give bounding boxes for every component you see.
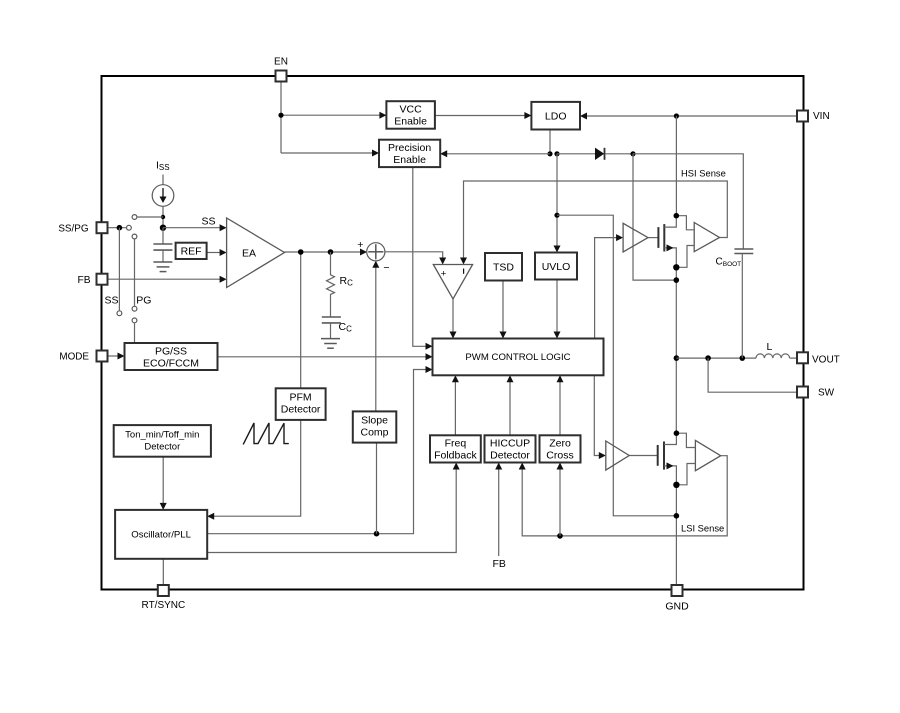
wire TSD to PWM	[502, 281, 504, 333]
wire LSI sense feedback	[522, 456, 727, 536]
block Slope Comp	[353, 411, 397, 442]
wire SS cap to ground	[162, 250, 164, 262]
wire VCC rail down	[556, 154, 558, 248]
arrow SS into EA	[220, 224, 227, 231]
svg-text:FB: FB	[77, 275, 90, 286]
svg-text:Detector: Detector	[281, 403, 321, 415]
switch contact c lower	[132, 234, 137, 239]
wire HS gate	[648, 237, 658, 239]
arrow ZC to PWM	[557, 375, 564, 382]
wire LDO bottom	[549, 130, 551, 154]
block HICCUP Detector	[485, 435, 536, 462]
arrow into Zero Cross	[557, 463, 564, 470]
svg-text:Detector: Detector	[490, 449, 530, 461]
svg-text:PFM: PFM	[290, 391, 312, 403]
svg-text:Ton_min/Toff_min: Ton_min/Toff_min	[125, 429, 199, 440]
wire diode cathode to boot node	[605, 153, 633, 155]
block Zero Cross	[540, 435, 581, 462]
op-amp EA error amplifier	[227, 218, 285, 288]
arrow REF into EA	[220, 249, 227, 256]
svg-text:Enable: Enable	[393, 154, 426, 166]
wire FB pin to EA	[109, 278, 221, 280]
ground under Cc	[321, 339, 340, 349]
wire Ton_min to Oscillator	[162, 457, 164, 504]
arrow Osc to PWM	[426, 366, 433, 373]
node VIN rail tap	[674, 113, 679, 118]
wire PGSS to PWM	[218, 356, 427, 358]
block Precision Enable	[379, 140, 440, 167]
arrow HICCUP to PWM	[507, 375, 514, 382]
resistor Rc	[327, 252, 335, 317]
diode D1 bootstrap	[595, 148, 605, 160]
node SSPG	[117, 225, 123, 231]
pin VIN	[797, 111, 830, 123]
arrow FB into EA	[220, 276, 227, 283]
arrow into UVLO	[554, 246, 561, 253]
block REF	[176, 243, 207, 259]
wire LS source down to GND	[675, 485, 677, 585]
svg-text:LSI Sense: LSI Sense	[681, 523, 724, 534]
node VCC rail top	[554, 151, 559, 156]
svg-text:SS/PG: SS/PG	[58, 223, 88, 234]
wire boot to Cboot	[633, 154, 743, 249]
wire Zero Cross to PWM	[559, 381, 561, 435]
node SS	[160, 225, 166, 231]
pin GND	[665, 585, 689, 613]
pin SW	[797, 387, 835, 399]
wire VCC to LS driver supply	[557, 215, 676, 516]
arrow summing into comparator	[439, 258, 446, 265]
comparator PWM	[433, 265, 472, 299]
svg-text:VOUT: VOUT	[812, 354, 840, 365]
wire UVLO to PWM	[556, 280, 558, 333]
wire PG sense down	[134, 239, 136, 306]
wire PFM to Oscillator	[214, 420, 301, 516]
node inductor tap	[705, 355, 711, 361]
wire FB to HICCUP	[498, 469, 500, 557]
wire L to VOUT	[790, 357, 798, 359]
switch contact PG lower2	[132, 318, 137, 323]
arrow into LS driver	[599, 452, 606, 459]
svg-text:Cross: Cross	[546, 449, 573, 461]
block Ton_min/Toff_min Detector	[114, 425, 211, 457]
wire Iss to SS node	[162, 206, 164, 227]
node boot	[630, 151, 635, 156]
wire summing to comparator	[385, 252, 443, 259]
svg-text:RT/SYNC: RT/SYNC	[142, 600, 186, 611]
switch contact a	[126, 225, 131, 230]
wire EN to Precision Enable	[281, 152, 374, 154]
wire Cboot to SW	[741, 254, 743, 359]
svg-text:−: −	[383, 262, 389, 274]
wire Precision Enable to PWM	[413, 167, 427, 346]
block Freq Foldback	[430, 435, 481, 462]
arrow comp into PWM	[450, 332, 457, 339]
arrow PGSS to PWM	[426, 353, 433, 360]
transistor HS FET	[658, 213, 694, 271]
svg-text:UVLO: UVLO	[542, 261, 571, 273]
svg-text:Detector: Detector	[144, 441, 180, 452]
arrow FF to PWM	[452, 375, 459, 382]
arrow FB into HICCUP	[495, 463, 502, 470]
block PWM CONTROL LOGIC	[433, 339, 604, 376]
svg-text:+: +	[357, 239, 363, 251]
wire SS to EA	[163, 227, 220, 229]
node Iss switch tap	[161, 215, 165, 219]
wire EN to VCC Enable	[281, 114, 381, 116]
svg-text:REF: REF	[181, 246, 202, 258]
wire SS sense down	[118, 228, 120, 311]
svg-text:FB: FB	[493, 558, 506, 570]
node zero cross tap	[557, 533, 563, 539]
wire REF to EA	[207, 252, 220, 254]
wire PWM to HS driver	[595, 238, 617, 339]
wire VIN rail down to HS drain	[675, 116, 677, 216]
wire Oscillator to PWM	[207, 370, 426, 534]
current source Iss	[152, 185, 174, 207]
capacitor Cboot	[734, 249, 753, 254]
wire osc to slope comp	[376, 443, 378, 534]
arrow Tonmin into osc	[160, 503, 167, 510]
pin EN	[274, 57, 288, 82]
node COMP	[298, 249, 304, 255]
wire HSI sense feedback	[464, 181, 728, 259]
svg-text:PG/SS: PG/SS	[155, 345, 187, 357]
wire contact b to Iss node	[137, 216, 163, 218]
svg-text:ECO/FCCM: ECO/FCCM	[143, 357, 199, 369]
svg-text:Foldback: Foldback	[434, 449, 477, 461]
block Oscillator/PLL	[115, 510, 207, 559]
svg-text:LDO: LDO	[545, 111, 567, 123]
svg-text:HICCUP: HICCUP	[490, 437, 530, 449]
node slope comp tap	[374, 531, 380, 537]
wire LS gate	[629, 455, 658, 457]
block UVLO	[535, 253, 577, 280]
svg-text:Precision: Precision	[388, 142, 431, 154]
LS gate driver	[606, 441, 629, 470]
arrow UVLO to PWM	[554, 332, 561, 339]
capacitor Cc	[322, 317, 341, 323]
wire EN vertical from pin	[280, 82, 282, 153]
arrow MODE into PGSS	[118, 353, 125, 360]
wire HS driver return	[633, 154, 676, 280]
wire PG to PGSS box	[134, 323, 136, 343]
wire zero cross input	[559, 469, 561, 536]
wire Iss top	[162, 175, 164, 185]
arrow LDO into Precision Enable	[440, 150, 447, 157]
arrow TSD to PWM	[500, 332, 507, 339]
svg-text:TSD: TSD	[493, 262, 514, 274]
LS current sense buffer	[695, 440, 720, 470]
arrow EN into VCC Enable	[379, 112, 386, 119]
svg-text:Enable: Enable	[394, 115, 427, 127]
wire Oscillator to RT/SYNC	[162, 559, 164, 585]
wire SS node to cap	[162, 228, 164, 244]
arrow HSI into comparator	[460, 258, 467, 265]
svg-text:VIN: VIN	[813, 111, 830, 122]
svg-text:Comp: Comp	[360, 427, 388, 439]
arrow osc into FF	[453, 463, 460, 470]
pin SS/PG	[58, 222, 107, 234]
HS current sense buffer	[694, 223, 719, 252]
wire SW node line	[676, 357, 756, 359]
wire to SW pin	[708, 358, 797, 392]
block PFM Detector	[276, 388, 326, 420]
svg-text:Slope: Slope	[361, 415, 388, 427]
svg-text:EN: EN	[274, 57, 288, 68]
arrow into oscillator	[207, 513, 214, 520]
pin FB	[77, 274, 107, 286]
wire LDO out to Precision Enable	[447, 153, 550, 155]
sawtooth waveform	[243, 423, 289, 444]
node EN junction	[278, 113, 283, 118]
transistor LS FET	[658, 430, 696, 488]
arrow VCCen into LDO	[524, 112, 531, 119]
block LDO	[531, 102, 580, 130]
pin VOUT	[797, 352, 840, 365]
wire VCC Enable to LDO	[435, 115, 526, 117]
svg-text:GND: GND	[665, 601, 689, 613]
wire Oscillator to Freq Foldback	[207, 469, 456, 553]
switch contact PG bottom	[132, 306, 137, 311]
wire MODE to PGSS box	[108, 355, 119, 357]
wire PWM to LS driver	[594, 375, 599, 455]
wire diode anode segment	[557, 153, 595, 155]
svg-text:VCC: VCC	[400, 103, 423, 115]
wire comparator out to PWM	[452, 299, 454, 333]
svg-text:PWM CONTROL LOGIC: PWM CONTROL LOGIC	[465, 352, 570, 363]
switch contact b upper	[132, 215, 137, 220]
svg-text:Freq: Freq	[445, 437, 467, 449]
summing junction	[357, 239, 389, 274]
HS gate driver	[623, 223, 648, 252]
svg-text:MODE: MODE	[59, 352, 89, 363]
svg-text:HSI Sense: HSI Sense	[681, 168, 726, 179]
capacitor SS soft start	[153, 244, 172, 250]
node Cboot tap	[740, 355, 746, 361]
wire HICCUP to PWM	[509, 381, 511, 435]
svg-text:+: +	[441, 269, 447, 280]
arrow slope into summing	[372, 261, 379, 268]
svg-text:SS: SS	[202, 216, 216, 228]
svg-text:SW: SW	[818, 388, 835, 399]
arrow into HS driver	[616, 234, 623, 241]
block TSD	[485, 253, 522, 281]
svg-text:EA: EA	[242, 248, 256, 260]
node SW line tap	[674, 355, 680, 361]
arrow PrecEn to PWM	[426, 343, 433, 350]
wire Cc to ground	[330, 323, 332, 339]
node LS return	[674, 513, 680, 519]
arrow EA into summing	[360, 249, 367, 256]
wire SW rail	[675, 267, 677, 433]
node VCC rail branch	[554, 213, 559, 218]
node LDO out	[547, 151, 552, 156]
wire Freq Foldback to PWM	[454, 381, 456, 435]
inductor L	[756, 354, 790, 358]
svg-text:SS: SS	[105, 295, 119, 307]
switch contact SS bottom	[117, 311, 122, 316]
svg-text:PG: PG	[136, 295, 151, 307]
pin MODE	[59, 351, 107, 363]
svg-text:Oscillator/PLL: Oscillator/PLL	[131, 530, 191, 541]
svg-text:Zero: Zero	[549, 437, 571, 449]
wire COMP to PFM	[300, 252, 302, 388]
node HS return	[674, 277, 680, 283]
block PG/SS ECO/FCCM	[125, 343, 218, 370]
ground under SS cap	[153, 262, 172, 272]
arrow EN into Precision Enable	[372, 150, 379, 157]
pin RT/SYNC	[142, 585, 186, 611]
wire EA output	[285, 251, 361, 253]
IC outer boundary	[102, 76, 804, 590]
wire SSPG pin to switch	[109, 227, 126, 229]
svg-text:L: L	[767, 341, 773, 353]
node Rc tap	[328, 249, 334, 255]
arrow LSI into HICCUP	[519, 463, 526, 470]
wire slope comp to summing	[375, 267, 377, 412]
wire VIN to LDO	[586, 115, 797, 117]
arrow VIN into LDO	[580, 113, 587, 120]
block VCC Enable	[386, 101, 435, 129]
